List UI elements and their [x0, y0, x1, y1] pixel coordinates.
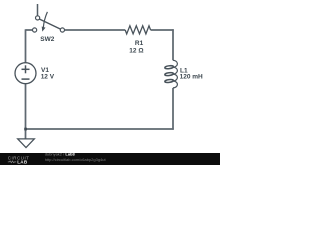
svg-text:12 Ω: 12 Ω [129, 47, 143, 54]
wire: V1 top up to SW2 left wire [25, 29, 27, 63]
svg-text:http://circuitlab.com/c6abp2g3: http://circuitlab.com/c6abp2g3g4ut [45, 157, 107, 162]
wire: top horizontal SW2 to R1 [65, 29, 126, 31]
ground [18, 139, 35, 148]
svg-text:LAB: LAB [17, 159, 28, 164]
inductor L1 [165, 60, 178, 88]
voltage source V1 [15, 63, 36, 84]
SW2 left contact circle [33, 28, 37, 32]
V1 minus sign [22, 78, 30, 80]
footer bar [0, 153, 220, 165]
wire: ground stub below junction [25, 129, 27, 139]
svg-text:12 V: 12 V [41, 73, 55, 80]
L1 back loops (left ellipses) [165, 65, 174, 69]
wire: R1 to top-right corner [151, 29, 174, 31]
wire: L1 bottom down right rail to bottom corner [172, 88, 174, 130]
L1 front arcs (right bulges) [173, 60, 177, 67]
switch SW2 [33, 12, 65, 32]
V1 body circle [15, 63, 36, 84]
SW2 right contact circle [60, 28, 64, 32]
CircuitLab logo zigzag [8, 161, 16, 163]
wire: top stub above switch (open terminal) [37, 4, 39, 16]
canvas background [0, 0, 220, 165]
svg-text:R1: R1 [135, 40, 144, 47]
V1 plus sign [22, 68, 30, 70]
wire: bottom horizontal rail [25, 128, 174, 130]
SW2 blade [39, 19, 60, 29]
wire: right rail top corner down to L1 [172, 29, 174, 60]
wire: left horizontal from SW2 left contact [26, 29, 33, 31]
svg-text:120 mH: 120 mH [180, 73, 203, 80]
SW2 top contact circle [36, 16, 40, 20]
node junction dot (V1- / ground / bottom rail) [24, 128, 27, 131]
wire: left rail junction up to V1 bottom [25, 84, 27, 130]
resistor R1 [125, 26, 150, 34]
SW2 actuation arrow [43, 12, 47, 28]
svg-text:SW2: SW2 [40, 36, 54, 43]
